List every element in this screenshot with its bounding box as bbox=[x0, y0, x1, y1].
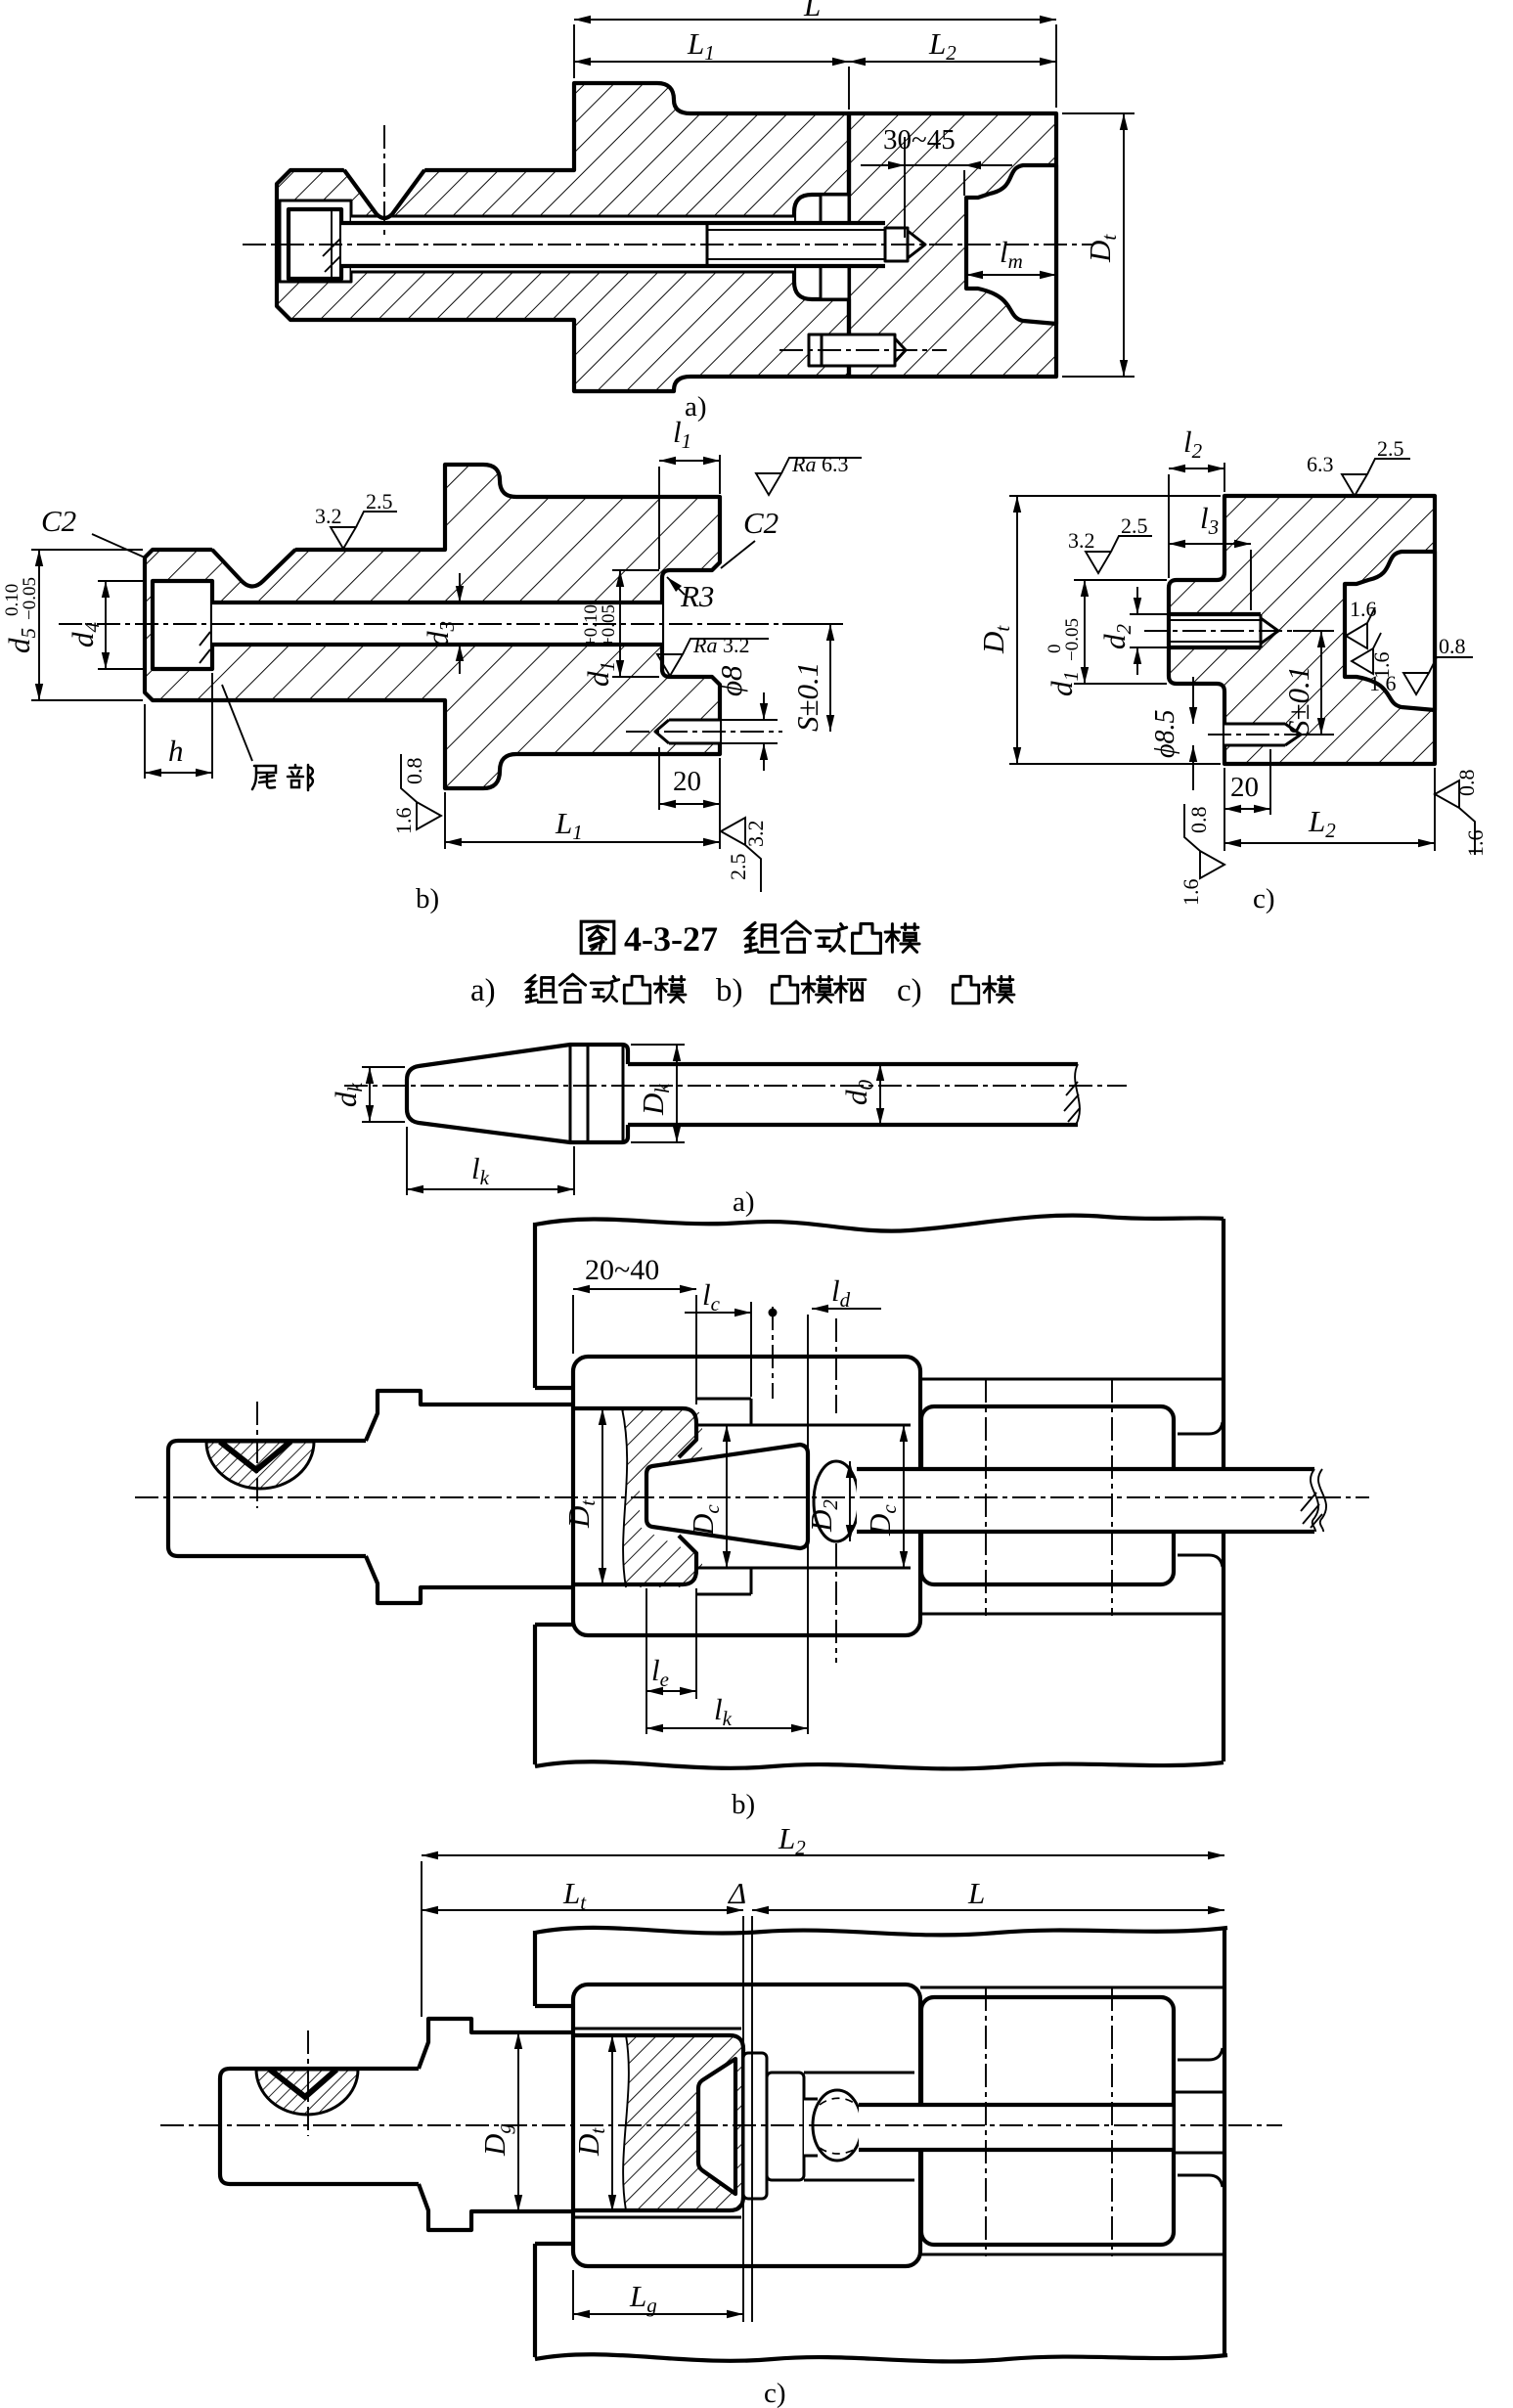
svg-text:+0.05: +0.05 bbox=[599, 604, 619, 647]
centrelines bbox=[135, 1496, 1369, 1498]
svg-text:c): c) bbox=[1253, 883, 1275, 914]
dim Dc right bbox=[903, 1425, 905, 1568]
svg-text:L: L bbox=[967, 1876, 985, 1910]
dim d5 bbox=[38, 550, 40, 700]
punch body (hatched) bbox=[849, 113, 1056, 377]
handle shank bbox=[220, 2069, 419, 2184]
handle head section (half-moon) bbox=[206, 1442, 314, 1489]
sleeve 1 bbox=[573, 1984, 920, 2266]
dim d4 bbox=[105, 581, 107, 669]
handle shank bbox=[168, 1441, 366, 1556]
svg-text:ϕ8: ϕ8 bbox=[714, 665, 748, 696]
svg-text:2.5: 2.5 bbox=[1121, 513, 1148, 538]
bolt point bbox=[885, 228, 908, 261]
screw head recess bbox=[280, 201, 351, 282]
svg-text:1.6: 1.6 bbox=[1350, 597, 1377, 621]
svg-text:C2: C2 bbox=[41, 504, 76, 538]
svg-text:Ra 3.2: Ra 3.2 bbox=[692, 633, 749, 657]
centreline bbox=[59, 623, 782, 625]
punch inner cavity bbox=[966, 165, 1056, 324]
svg-text:b): b) bbox=[716, 973, 743, 1008]
steps bbox=[573, 2028, 741, 2030]
Dt piece (hatched) bbox=[622, 1408, 702, 1587]
sleeve 2 bbox=[921, 1997, 1174, 2245]
V notch bbox=[210, 546, 297, 587]
set screw (bottom) bbox=[809, 334, 895, 366]
V centering mark on holder bbox=[342, 166, 426, 218]
sleeve1 bore lines bbox=[696, 1398, 751, 1401]
3.2/2.5 bbox=[1086, 536, 1152, 573]
main centreline bbox=[243, 244, 1093, 245]
bore d3 bbox=[212, 602, 662, 645]
1.6 marks in cavity bbox=[1346, 607, 1375, 648]
dim Dk bbox=[676, 1045, 678, 1142]
svg-text:2.5: 2.5 bbox=[366, 489, 393, 513]
rod bbox=[628, 1062, 1078, 1066]
threaded hole d2 bbox=[1171, 614, 1261, 647]
dimension L bbox=[574, 19, 1056, 21]
cavity bbox=[1345, 552, 1435, 710]
svg-text:1.6: 1.6 bbox=[391, 808, 416, 835]
rod bbox=[859, 2105, 1174, 2150]
S+-0.1 bbox=[1281, 666, 1315, 736]
dim Dc left bbox=[726, 1425, 728, 1568]
dim d2 bbox=[1136, 587, 1138, 614]
svg-text:Ra 6.3: Ra 6.3 bbox=[791, 452, 848, 476]
svg-text:b): b) bbox=[732, 1789, 755, 1820]
dim d1 bbox=[619, 570, 621, 677]
dim Dg bbox=[517, 2032, 519, 2211]
outer block bbox=[535, 1928, 1227, 1936]
Ra3.2 in counterbore bbox=[657, 639, 769, 676]
punch tail bbox=[821, 195, 849, 299]
dimension L1 / L2 bbox=[574, 61, 849, 63]
svg-text:c): c) bbox=[897, 973, 922, 1008]
weibu label bbox=[222, 685, 252, 761]
svg-text:S±0.1: S±0.1 bbox=[1281, 666, 1315, 736]
3.2/2.5 top bbox=[331, 512, 397, 549]
svg-text:20: 20 bbox=[1230, 772, 1259, 803]
svg-text:0.8: 0.8 bbox=[1186, 807, 1211, 834]
svg-text:0.8: 0.8 bbox=[1454, 770, 1479, 797]
svg-text:1.6: 1.6 bbox=[1369, 671, 1397, 695]
svg-text:2.5: 2.5 bbox=[726, 854, 750, 881]
svg-text:1.6: 1.6 bbox=[1179, 879, 1203, 907]
ball bbox=[814, 1461, 859, 1541]
svg-text:20: 20 bbox=[673, 766, 701, 797]
dim Dt bbox=[1016, 496, 1018, 764]
bolt hole walls bbox=[351, 216, 794, 272]
svg-text:h: h bbox=[168, 734, 184, 768]
svg-text:30~45: 30~45 bbox=[883, 124, 956, 156]
svg-text:6.3: 6.3 bbox=[1307, 452, 1334, 476]
svg-text:3.2: 3.2 bbox=[743, 821, 768, 848]
1.6/0.8 bottom-left bbox=[1184, 804, 1224, 878]
svg-text:ϕ8.5: ϕ8.5 bbox=[1150, 710, 1180, 759]
screw head bbox=[289, 209, 341, 279]
svg-text:3.2: 3.2 bbox=[1068, 528, 1095, 553]
Dt piece hatched bbox=[623, 2035, 743, 2210]
S+-0.1 bbox=[790, 662, 824, 732]
dim d3 bbox=[459, 573, 461, 602]
6.3/2.5 top bbox=[1342, 459, 1410, 496]
svg-text:R3: R3 bbox=[680, 579, 714, 613]
centrelines bbox=[160, 2124, 1282, 2126]
punch holder body (hatched) bbox=[277, 83, 849, 391]
svg-text:4-3-27: 4-3-27 bbox=[624, 919, 718, 959]
shoulder + collar + body bbox=[366, 1391, 573, 1603]
dim d0 bbox=[879, 1064, 881, 1125]
svg-text:0.8: 0.8 bbox=[402, 758, 426, 785]
sleeve 1 bbox=[573, 1357, 920, 1635]
collar + body bbox=[419, 2019, 573, 2230]
svg-text:a): a) bbox=[470, 973, 496, 1008]
taper bbox=[407, 1045, 628, 1142]
phi8.5 hole bbox=[1224, 724, 1285, 745]
bolt shank bbox=[341, 223, 885, 266]
svg-text:b): b) bbox=[416, 883, 439, 914]
svg-text:−0.05: −0.05 bbox=[1062, 618, 1083, 661]
svg-text:20~40: 20~40 bbox=[585, 1254, 659, 1286]
dim dk bbox=[369, 1067, 371, 1122]
outer block bbox=[535, 1216, 1224, 1231]
ball bbox=[804, 2099, 814, 2156]
svg-text:−0.05: −0.05 bbox=[20, 577, 40, 620]
2.5/3.2 bottom right bbox=[721, 818, 761, 892]
svg-text:c): c) bbox=[764, 2378, 786, 2408]
svg-text:a): a) bbox=[685, 391, 707, 423]
dim Dt bbox=[611, 2035, 613, 2211]
1.6/0.8 right bbox=[1403, 657, 1473, 694]
svg-text:C2: C2 bbox=[743, 506, 779, 540]
svg-text:a): a) bbox=[733, 1186, 755, 1218]
taper punch bbox=[646, 1445, 808, 1548]
1.6/0.8 bottom-right bbox=[1435, 780, 1475, 855]
svg-text:1.6: 1.6 bbox=[1463, 830, 1488, 858]
svg-text:Δ: Δ bbox=[727, 1876, 746, 1910]
dim d1 bbox=[1084, 580, 1086, 684]
rod bbox=[857, 1469, 1314, 1532]
svg-text:0.8: 0.8 bbox=[1439, 634, 1466, 658]
1.6/0.8 bottom left bbox=[401, 754, 441, 829]
head recess bbox=[153, 581, 212, 669]
dim D2 bbox=[849, 1461, 851, 1541]
dim Dt bbox=[601, 1408, 603, 1584]
svg-text:2.5: 2.5 bbox=[1377, 436, 1404, 461]
dimension Dt right bbox=[1123, 113, 1125, 377]
sleeve 2 bbox=[921, 1406, 1174, 1584]
svg-text:S±0.1: S±0.1 bbox=[790, 662, 824, 732]
svg-text:L: L bbox=[803, 0, 821, 22]
svg-text:3.2: 3.2 bbox=[315, 504, 342, 528]
pin hole bbox=[669, 720, 720, 743]
Ra6.3 top right bbox=[756, 458, 862, 495]
